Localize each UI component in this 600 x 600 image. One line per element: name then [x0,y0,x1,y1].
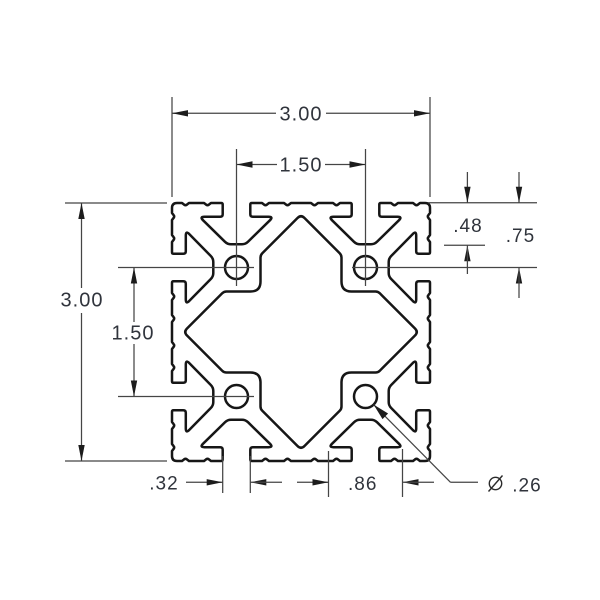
dimension .75 slot centre offset: arrows and stubs [518,172,520,203]
dimension 1.50 slot spacing left: extension/centre lines [118,267,254,269]
hole bottom-right [354,385,377,408]
dimension .32 slot opening: arrows [186,481,223,483]
diameter symbol [489,477,501,489]
dimension .32 slot opening: extension lines [222,456,224,493]
dimension 1.50 slot spacing top: extension/centre lines [236,149,238,286]
dimension .86 cavity width: extension lines [328,451,330,497]
dimension .48 slot depth: arrows and stubs [466,172,468,203]
hole top-left [225,256,248,279]
svg-text:1.50: 1.50 [280,155,323,177]
svg-text:1.50: 1.50 [112,323,155,345]
svg-text:3.00: 3.00 [280,103,323,125]
svg-text:.75: .75 [506,226,535,247]
svg-text:.86: .86 [348,474,377,495]
dimension 1.50 slot spacing top: dimension line and arrows [237,164,278,166]
leader line for hole diameter callout [374,405,451,483]
extrusion profile outer contour with T-slots [172,203,430,461]
dimension 3.00 overall height: extension lines [65,202,167,204]
central star-shaped cavity [185,216,417,448]
hole bottom-left [225,385,248,408]
hole top-right [354,256,377,279]
svg-text:.32: .32 [149,473,178,494]
svg-text:3.00: 3.00 [61,290,104,312]
dimension .75 slot centre offset: extension/centre line [352,267,537,269]
dimension .86 cavity width: arrows [313,479,329,485]
dimension .48 slot depth: extension lines [428,202,537,204]
dimension 3.00 overall height: dimension line and arrows [81,203,83,288]
dimension 3.00 overall width: extension lines [171,97,173,197]
dimension 1.50 slot spacing left: dimension line and arrows [133,268,135,323]
svg-text:.26: .26 [512,475,541,496]
svg-text:.48: .48 [453,216,482,237]
dimension 3.00 overall width: dimension line and arrows [172,112,276,114]
